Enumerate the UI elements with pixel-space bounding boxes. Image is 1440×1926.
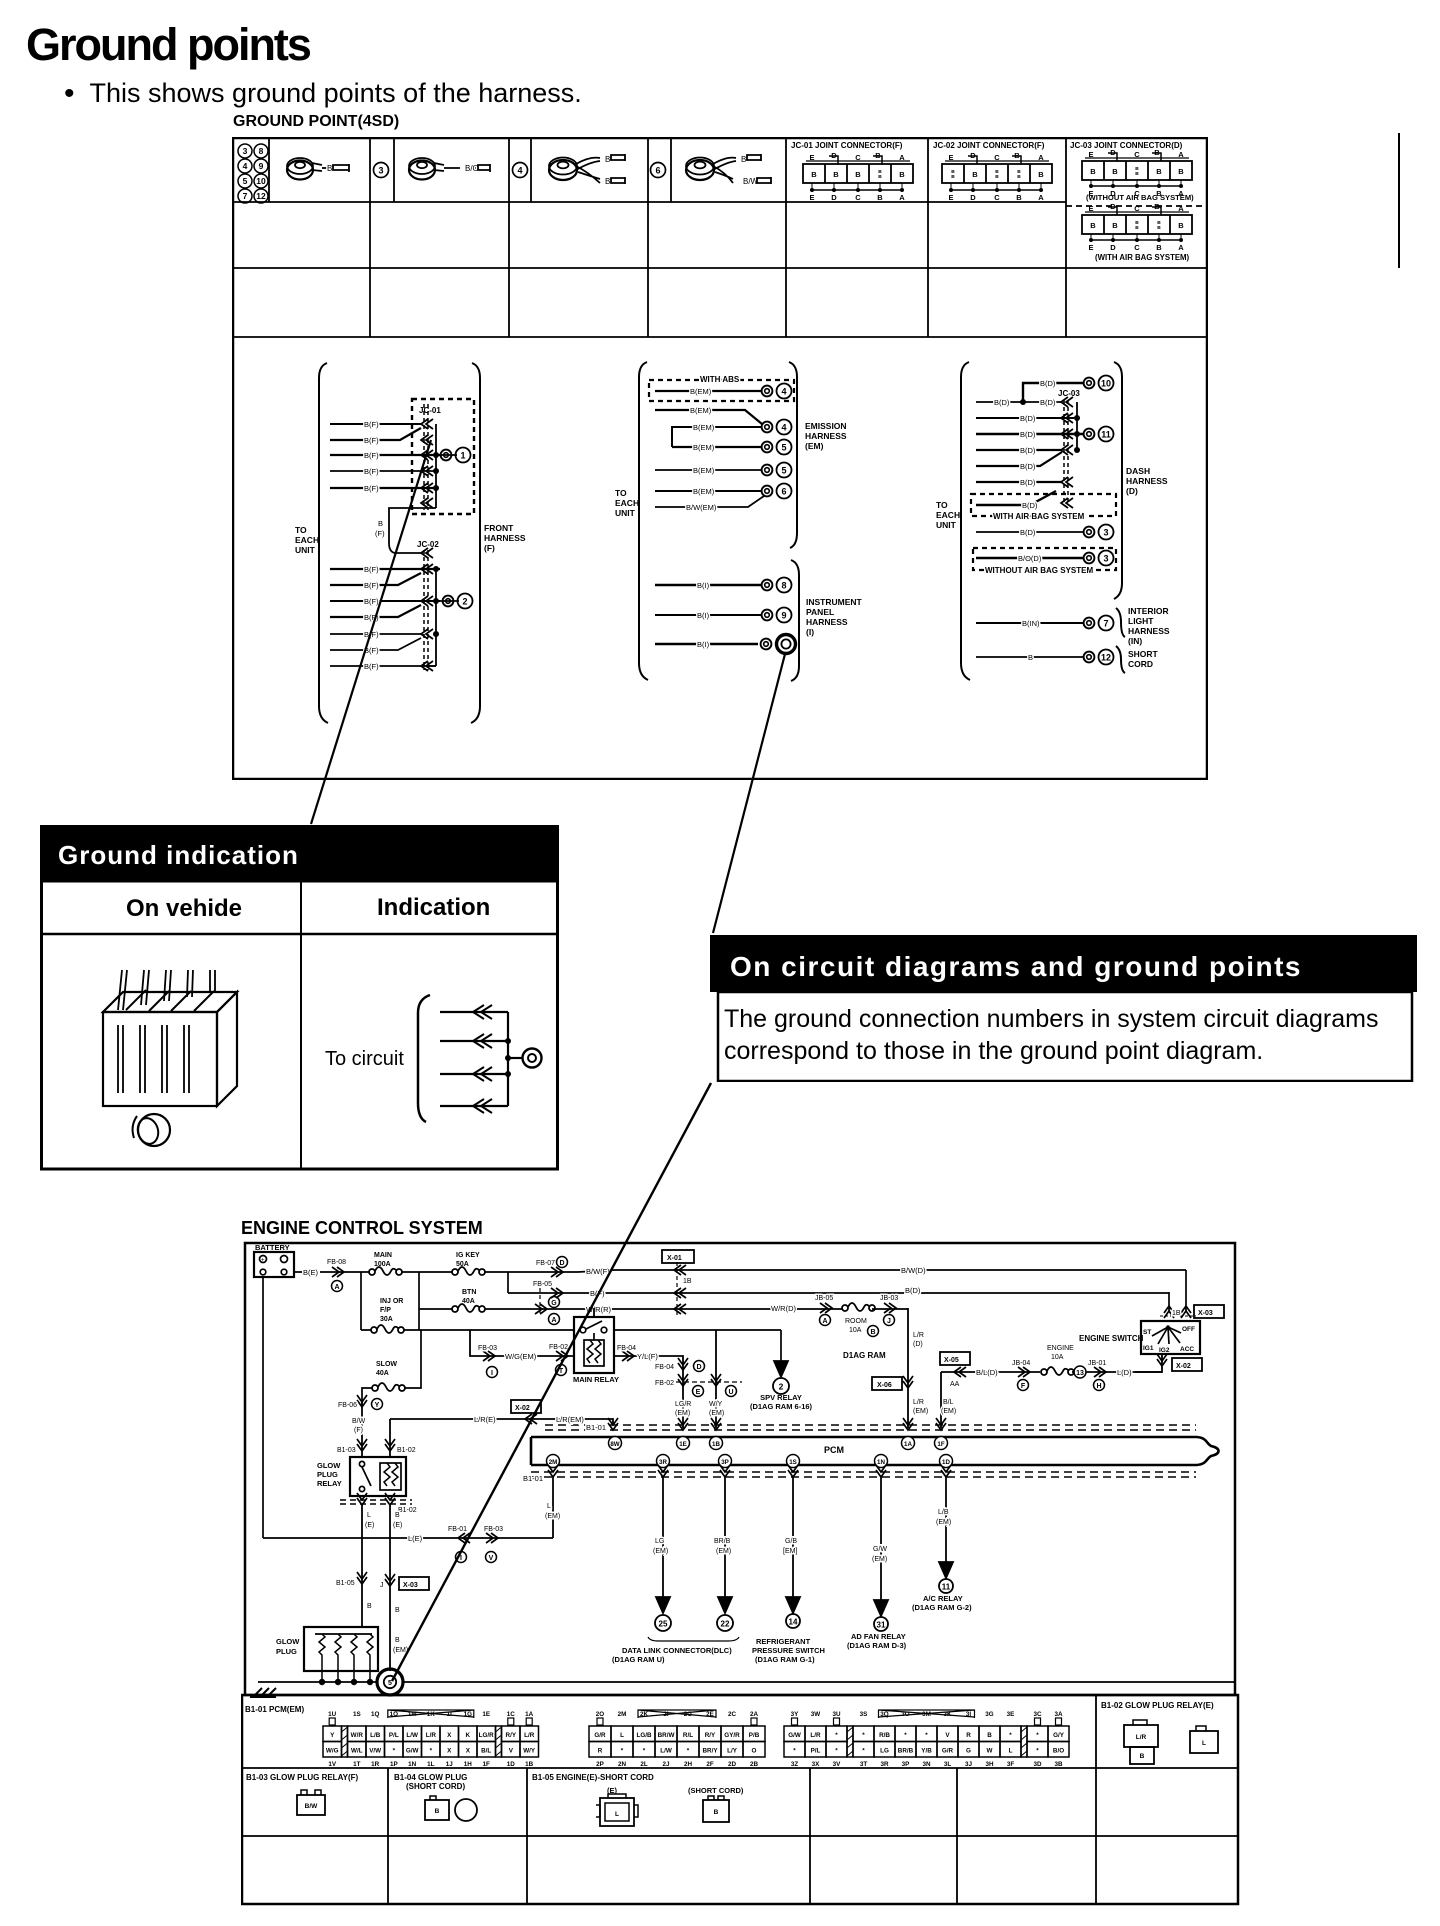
svg-text:(EM): (EM) [393,1647,408,1654]
JC-02 joint connector [933,141,1052,202]
label TO EACH UNIT (dash) [936,500,960,530]
svg-text:LIGHT: LIGHT [1128,616,1154,626]
label B1-03 glow plug relay(F) [246,1773,358,1815]
svg-text:SPV RELAY: SPV RELAY [760,1393,802,1402]
svg-text:B: B [1178,221,1184,230]
fuse IG KEY 50A [452,1252,485,1275]
ground point 2 [440,594,473,609]
wire L/B(EM) to A/C relay [912,1477,972,1612]
svg-text:DASH: DASH [1126,466,1150,476]
callout line B upper [713,654,785,933]
svg-text:3F: 3F [1007,1761,1015,1768]
divider number 3 [374,163,389,178]
svg-text:4: 4 [243,161,248,171]
svg-text:B1-02: B1-02 [398,1507,417,1514]
svg-text:MAIN: MAIN [374,1252,392,1259]
svg-text:B(F): B(F) [364,581,379,590]
svg-text:U: U [728,1389,733,1396]
wire relay feed [419,1329,781,1331]
svg-text:25: 25 [659,1620,668,1629]
svg-text:E: E [1088,204,1093,213]
ground terminal type 1 (B) [287,158,349,180]
svg-text:1D: 1D [507,1761,516,1768]
svg-text:B(D): B(D) [994,398,1010,407]
wire G/B(EM) to refrigerant pressure switch [752,1477,825,1664]
svg-text:(EM): (EM) [941,1408,956,1415]
svg-text:B/W: B/W [305,1803,319,1810]
svg-text:*: * [1009,1732,1012,1739]
svg-text:IG KEY: IG KEY [456,1252,480,1259]
svg-text:10: 10 [256,176,266,186]
svg-text:PLUG: PLUG [276,1647,297,1656]
svg-text:B1-01: B1-01 [523,1474,543,1483]
label B1-04 glow plug (short cord) [394,1773,477,1821]
svg-text:L/B: L/B [370,1732,381,1739]
svg-text:B: B [1157,220,1161,226]
svg-text:C: C [1134,150,1140,159]
svg-text:C: C [1134,243,1140,252]
svg-text:W/L: W/L [351,1748,363,1755]
svg-text:3N: 3N [922,1761,931,1768]
svg-text:O: O [752,1748,757,1755]
svg-text:P/B: P/B [749,1732,760,1739]
label B1-05 engine(E)-short cord [532,1773,744,1826]
svg-text:B(F): B(F) [364,662,379,671]
svg-text:1L: 1L [427,1761,435,1768]
svg-text:C: C [994,153,1000,162]
PCM pin circles bottom [547,1455,953,1468]
fuse SLOW 40A [362,1330,421,1404]
svg-text:I: I [491,1370,493,1377]
svg-text:B: B [605,155,610,164]
svg-text:Y/L(F): Y/L(F) [637,1352,658,1361]
svg-text:JC-01: JC-01 [419,406,441,415]
svg-text:E: E [696,1389,701,1396]
WITH ABS dashed box [649,380,794,401]
svg-text:L: L [1202,1740,1206,1747]
svg-text:B: B [714,1809,719,1816]
svg-text:3A: 3A [1054,1711,1063,1718]
svg-text:R/Y: R/Y [506,1732,517,1739]
svg-text:1K: 1K [427,1711,436,1718]
svg-text:3U: 3U [832,1711,841,1718]
svg-text:1F: 1F [937,1441,944,1448]
svg-text:X-05: X-05 [944,1357,959,1364]
svg-text:F/P: F/P [380,1307,391,1314]
svg-text:13: 13 [1076,1370,1084,1377]
svg-text:*: * [835,1732,838,1739]
chassis ground hatch [250,1688,276,1697]
divider number 4 [513,163,528,178]
WITHOUT AIR BAG dashed box [973,548,1116,570]
svg-text:2: 2 [462,597,467,607]
svg-text:(D1AG RAM 6-16): (D1AG RAM 6-16) [750,1402,813,1411]
svg-text:TO: TO [615,488,627,498]
svg-text:B: B [1112,221,1118,230]
svg-text:UNIT: UNIT [936,520,957,530]
svg-text:B1-05: B1-05 [336,1580,355,1587]
svg-text:TO: TO [295,525,307,535]
svg-text:A/C RELAY: A/C RELAY [923,1594,963,1603]
svg-text:8: 8 [781,581,786,591]
svg-text:A: A [1178,150,1184,159]
svg-text:3J: 3J [965,1761,973,1768]
svg-text:B(I): B(I) [697,581,710,590]
svg-text:3: 3 [1103,528,1108,538]
svg-text:B: B [995,174,999,180]
callout line B lower [392,1083,711,1681]
svg-text:(D): (D) [913,1341,923,1348]
wire Y/L(F) from relay [614,1345,742,1428]
svg-text:Y: Y [375,1402,380,1409]
wire B(E) leg to ground [380,1504,429,1671]
section label [233,113,399,131]
svg-text:1D: 1D [942,1459,950,1466]
ground terminal type 2 (B/O) [409,158,490,180]
svg-text:R/B: R/B [879,1732,890,1739]
svg-text:B(F): B(F) [364,436,379,445]
svg-text:B: B [877,193,883,202]
svg-text:B1-03: B1-03 [337,1447,356,1454]
svg-text:B(EM): B(EM) [693,487,715,496]
svg-text:P/L: P/L [389,1732,399,1739]
svg-text:6: 6 [655,166,660,176]
svg-text:(EM): (EM) [653,1548,668,1555]
svg-text:W/Y: W/Y [523,1748,536,1755]
svg-text:2P: 2P [596,1761,604,1768]
mounting bolt [138,1114,170,1146]
ground point 5a [762,440,792,455]
svg-text:A: A [334,1284,339,1291]
svg-text:FB-06: FB-06 [338,1402,357,1409]
ground point 6 [762,484,792,499]
interior light bracket [1116,608,1125,637]
svg-text:B1-02: B1-02 [397,1447,416,1454]
svg-text:Y: Y [330,1732,335,1739]
svg-text:PRESSURE SWITCH: PRESSURE SWITCH [752,1646,825,1655]
svg-text:G/R: G/R [942,1748,954,1755]
svg-text:B(D): B(D) [1020,430,1036,439]
svg-text:W/G: W/G [326,1748,339,1755]
svg-text:B(EM): B(EM) [690,387,712,396]
svg-text:3E: 3E [1007,1711,1015,1718]
ground point 11 [1084,427,1114,442]
svg-text:W/Y: W/Y [709,1401,723,1408]
svg-text:E: E [948,153,953,162]
svg-text:A: A [899,193,905,202]
wire B(D) to ground 3 [761,525,1114,540]
svg-text:V: V [945,1732,950,1739]
svg-text:1H: 1H [464,1761,473,1768]
wire L/R(D) drop [872,1308,928,1428]
svg-text:LG/R: LG/R [479,1732,494,1739]
svg-text:1R: 1R [371,1761,380,1768]
svg-text:4: 4 [517,166,522,176]
svg-text:A: A [899,153,905,162]
svg-text:1C: 1C [507,1711,516,1718]
svg-text:B(IN): B(IN) [1022,619,1040,628]
svg-text:D: D [1110,202,1116,211]
svg-text:L/R(E): L/R(E) [474,1415,496,1424]
wire LG(EM) to DLC [653,1477,671,1631]
svg-text:G/Y: G/Y [1053,1732,1065,1739]
wire to IG KEY [402,1272,453,1330]
ground point 1 [440,448,471,463]
svg-text:To circuit: To circuit [325,1048,404,1070]
battery [254,1243,294,1277]
svg-text:4: 4 [781,423,786,433]
svg-text:(EM): (EM) [805,441,824,451]
ground point index numbers [238,144,268,203]
svg-text:FB-07: FB-07 [536,1260,555,1267]
svg-text:UNIT: UNIT [615,508,636,518]
svg-text:B: B [395,1607,400,1614]
label TO EACH UNIT (front) [295,525,319,555]
fuse ENGINE 10A [1041,1367,1074,1375]
front harness wires B(F) group 1 [330,419,440,508]
svg-text:30A: 30A [380,1316,393,1323]
ground point 9 [762,608,792,623]
svg-text:BR/B: BR/B [714,1538,731,1545]
svg-text:1J: 1J [446,1761,454,1768]
svg-text:B: B [875,151,881,160]
connector pin grid group 3 [784,1710,1069,1768]
svg-text:FB-08: FB-08 [327,1259,346,1266]
svg-text:(SHORT CORD): (SHORT CORD) [406,1782,465,1791]
fuse BTN 40A [452,1289,485,1312]
svg-text:J: J [380,1582,384,1589]
svg-text:5: 5 [388,1680,392,1687]
svg-text:L/R: L/R [426,1732,437,1739]
svg-text:B(F): B(F) [364,484,379,493]
svg-text:B(D): B(D) [1022,501,1038,510]
label EMISSION HARNESS (EM) [805,421,847,451]
svg-text:B: B [1135,166,1139,172]
svg-text:3P: 3P [902,1761,910,1768]
black header bar [40,825,559,881]
svg-text:5: 5 [781,443,786,453]
svg-text:2L: 2L [640,1761,648,1768]
svg-text:F: F [1021,1383,1026,1390]
svg-text:(EM): (EM) [709,1410,724,1417]
connector JB-05 + fuse ROOM 10A + JB-03 [815,1295,898,1337]
callout line A to Ground indication [311,440,431,824]
svg-text:B: B [367,1603,372,1610]
svg-text:HARNESS: HARNESS [484,533,526,543]
bus B1-02 below relay [340,1493,417,1514]
svg-text:IG1: IG1 [1143,1345,1154,1352]
svg-text:2M: 2M [549,1459,558,1466]
svg-text:HARNESS: HARNESS [806,617,848,627]
svg-text:LG: LG [880,1748,889,1755]
svg-text:X-02: X-02 [515,1405,530,1412]
instrument panel wires B(I) [655,581,761,649]
svg-text:Ground indication: Ground indication [58,840,299,870]
svg-text:*: * [643,1748,646,1755]
page edge artifact line [1395,133,1403,268]
svg-text:L/R: L/R [810,1732,821,1739]
battery ground feed wire [262,1278,264,1538]
svg-text:UNIT: UNIT [295,545,316,555]
svg-text:CORD: CORD [1128,659,1153,669]
svg-text:3R: 3R [659,1459,667,1466]
svg-text:12: 12 [256,191,266,201]
svg-text:B(D): B(D) [905,1286,921,1295]
svg-text:10A: 10A [849,1327,862,1334]
svg-text:X: X [447,1732,452,1739]
svg-text:B: B [1017,174,1021,180]
svg-text:1U: 1U [328,1711,337,1718]
svg-text:B: B [1154,202,1160,211]
svg-text:LG: LG [655,1538,664,1545]
svg-text:FB-02: FB-02 [549,1344,568,1351]
svg-text:B(D): B(D) [1020,478,1036,487]
svg-text:R/L: R/L [683,1732,693,1739]
svg-text:D: D [970,151,976,160]
svg-text:2: 2 [779,1382,784,1392]
GROUND POINT TABLE SVG [232,137,1208,780]
svg-text:B/O(D): B/O(D) [1018,554,1042,563]
svg-text:3G: 3G [985,1711,994,1718]
svg-text:GLOW: GLOW [317,1461,341,1470]
svg-text:(EM): (EM) [716,1548,731,1555]
svg-text:*: * [430,1748,433,1755]
svg-text:L(E): L(E) [408,1534,423,1543]
svg-text:B: B [435,1808,440,1815]
svg-text:B: B [378,519,383,528]
svg-text:B: B [811,170,817,179]
emission wire B(EM) abs [655,384,792,399]
svg-text:E: E [1088,243,1093,252]
svg-text:B: B [605,177,610,186]
svg-text:IG2: IG2 [1159,1347,1170,1354]
svg-text:8: 8 [259,146,264,156]
svg-text:B: B [899,170,905,179]
svg-text:B: B [1017,169,1021,175]
svg-text:1A: 1A [525,1711,534,1718]
svg-text:JB-05: JB-05 [815,1295,833,1302]
svg-text:WITH AIR BAG SYSTEM: WITH AIR BAG SYSTEM [993,512,1085,521]
svg-text:W/R(R): W/R(R) [586,1305,611,1314]
svg-text:(D1AG RAM U): (D1AG RAM U) [612,1655,665,1664]
svg-text:(D): (D) [1126,486,1138,496]
svg-text:FRONT: FRONT [484,523,514,533]
svg-text:B/O: B/O [465,164,479,173]
svg-text:JB-03: JB-03 [880,1295,898,1302]
svg-text:2M: 2M [618,1711,627,1718]
svg-text:10: 10 [1101,379,1111,389]
svg-text:FB-03: FB-03 [478,1345,497,1352]
wire B(F) link to JC-02 [375,508,428,553]
svg-text:3Y: 3Y [791,1711,800,1718]
connector block on vehicle [103,970,237,1146]
table grid lines [233,138,1207,337]
svg-text:HARNESS: HARNESS [1128,626,1170,636]
svg-text:(F): (F) [484,543,495,553]
svg-text:B: B [741,155,746,164]
svg-text:B(I): B(I) [697,640,710,649]
svg-text:LG/B: LG/B [636,1732,651,1739]
label INSTRUMENT PANEL HARNESS (I) [806,597,863,637]
svg-text:1B: 1B [683,1278,692,1285]
svg-text:(WITH AIR BAG SYSTEM): (WITH AIR BAG SYSTEM) [1095,253,1190,262]
svg-text:B: B [1156,167,1162,176]
svg-text:B: B [951,174,955,180]
svg-text:LG/R: LG/R [675,1401,691,1408]
svg-text:BR/W: BR/W [658,1732,675,1739]
B1-02 glow plug relay connector [1101,1701,1214,1764]
svg-text:X-06: X-06 [877,1382,892,1389]
svg-text:B(F): B(F) [364,646,379,655]
svg-text:[EM]: [EM] [783,1548,797,1555]
svg-text:B/W(F): B/W(F) [586,1267,610,1276]
svg-text:3M: 3M [922,1711,931,1718]
svg-text:B1-05 ENGINE(E)-SHORT CORD: B1-05 ENGINE(E)-SHORT CORD [532,1773,654,1782]
ground point 5 [377,1669,403,1695]
wire W/R(R)-W/R(D) run [419,1288,908,1325]
svg-text:K: K [466,1732,471,1739]
svg-text:1F: 1F [483,1761,491,1768]
svg-text:WITHOUT AIR BAG SYSTEM: WITHOUT AIR BAG SYSTEM [985,566,1093,575]
svg-text:B(F): B(F) [364,451,379,460]
svg-text:TO: TO [936,500,948,510]
svg-text:C: C [1134,204,1140,213]
svg-text:G/B: G/B [785,1538,797,1545]
label DASH HARNESS (D) [1126,466,1168,496]
svg-text:10A: 10A [1051,1354,1064,1361]
svg-text:J: J [887,1318,891,1325]
svg-text:L/W: L/W [660,1748,672,1755]
svg-text:1S: 1S [353,1711,361,1718]
svg-text:B: B [1157,225,1161,231]
connector pin grid B1-01 group 1 [323,1710,539,1768]
svg-text:B(EM): B(EM) [693,466,715,475]
svg-text:B1-01: B1-01 [586,1423,606,1432]
svg-text:ENGINE: ENGINE [1047,1345,1074,1352]
svg-text:MAIN RELAY: MAIN RELAY [573,1375,619,1384]
glow plugs R1-R4 [276,1627,378,1685]
svg-text:B: B [1156,243,1162,252]
svg-text:1B: 1B [712,1441,720,1448]
svg-text:L/R(EM): L/R(EM) [556,1415,584,1424]
wire FB-06 B/W(F) to glow plug relay [337,1395,383,1457]
svg-text:B: B [878,174,882,180]
dash harness wires B(D) [976,379,1083,487]
svg-text:(F): (F) [375,529,385,538]
svg-text:1B: 1B [525,1761,534,1768]
svg-text:(WITHOUT AIR BAG SYSTEM): (WITHOUT AIR BAG SYSTEM) [1086,193,1194,202]
wire B/L(D) run to engine switch [940,1345,1162,1428]
svg-text:B: B [1112,167,1118,176]
svg-text:V: V [489,1555,494,1562]
front harness wires B(F) group 2 [330,548,440,671]
svg-text:B: B [395,1512,400,1519]
svg-text:correspond to those in the gro: correspond to those in the ground point … [724,1037,1263,1065]
wire G/W(EM) to AD fan relay [847,1477,907,1650]
svg-text:B: B [1178,167,1184,176]
svg-text:*: * [621,1748,624,1755]
label FRONT HARNESS (F) [484,523,526,553]
PCM pin circles top [609,1437,948,1450]
svg-text:D: D [1110,148,1116,157]
wire B(E) with fuse block FB-08 [294,1259,370,1292]
svg-text:*: * [1036,1732,1039,1739]
wire BR/B(EM) to DLC [714,1477,733,1631]
svg-text:ROOM: ROOM [845,1318,867,1325]
svg-text:JC-01 JOINT CONNECTOR(F): JC-01 JOINT CONNECTOR(F) [791,141,903,150]
svg-text:14: 14 [789,1618,798,1627]
svg-text:1E: 1E [482,1711,490,1718]
